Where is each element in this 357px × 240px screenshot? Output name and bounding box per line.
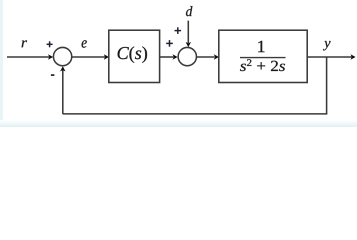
wire: error signal e — [72, 56, 105, 58]
arrowhead into plant block — [214, 54, 219, 59]
wire: feedback vertical left up to S1 — [62, 70, 64, 115]
plant fraction bar — [240, 57, 286, 59]
wire: input r line — [7, 56, 49, 58]
node label y — [323, 41, 331, 50]
plus sign at S2 horizontal input — [166, 40, 173, 47]
wire: controller output to summing junction S2 — [160, 56, 174, 58]
wire: feedback bottom horizontal — [63, 113, 328, 115]
node label r — [22, 40, 27, 47]
left blue edge band — [0, 0, 3, 127]
arrowhead into summing junction S1 — [48, 54, 53, 59]
plant block 1/(s^2+2s) — [219, 30, 307, 82]
summing junction S2 — [178, 47, 196, 65]
node label d — [186, 6, 192, 16]
plus sign at S1 input — [47, 41, 53, 47]
wire: S2 output to plant — [197, 56, 215, 58]
summing junction S1 — [53, 47, 71, 65]
wire: disturbance d drop line — [187, 21, 189, 43]
node label e — [82, 40, 87, 48]
plus sign at S2 disturbance input — [175, 27, 182, 34]
plant numerator 1 — [258, 41, 264, 52]
arrowhead into controller block — [104, 54, 109, 59]
plant denominator s^2+2s — [240, 59, 285, 71]
arrowhead into summing junction S2 — [173, 54, 178, 59]
minus sign at S1 feedback input — [51, 74, 55, 76]
wire: plant output y — [307, 56, 352, 58]
wire: feedback branch vertical right — [326, 57, 328, 114]
bottom blue edge band — [0, 120, 357, 127]
label C(s) — [118, 46, 147, 63]
arrowhead of d into S2 top — [186, 42, 191, 47]
output arrowhead — [351, 54, 356, 59]
controller block C(s) — [109, 30, 160, 82]
arrowhead of feedback into S1 bottom — [60, 66, 65, 71]
